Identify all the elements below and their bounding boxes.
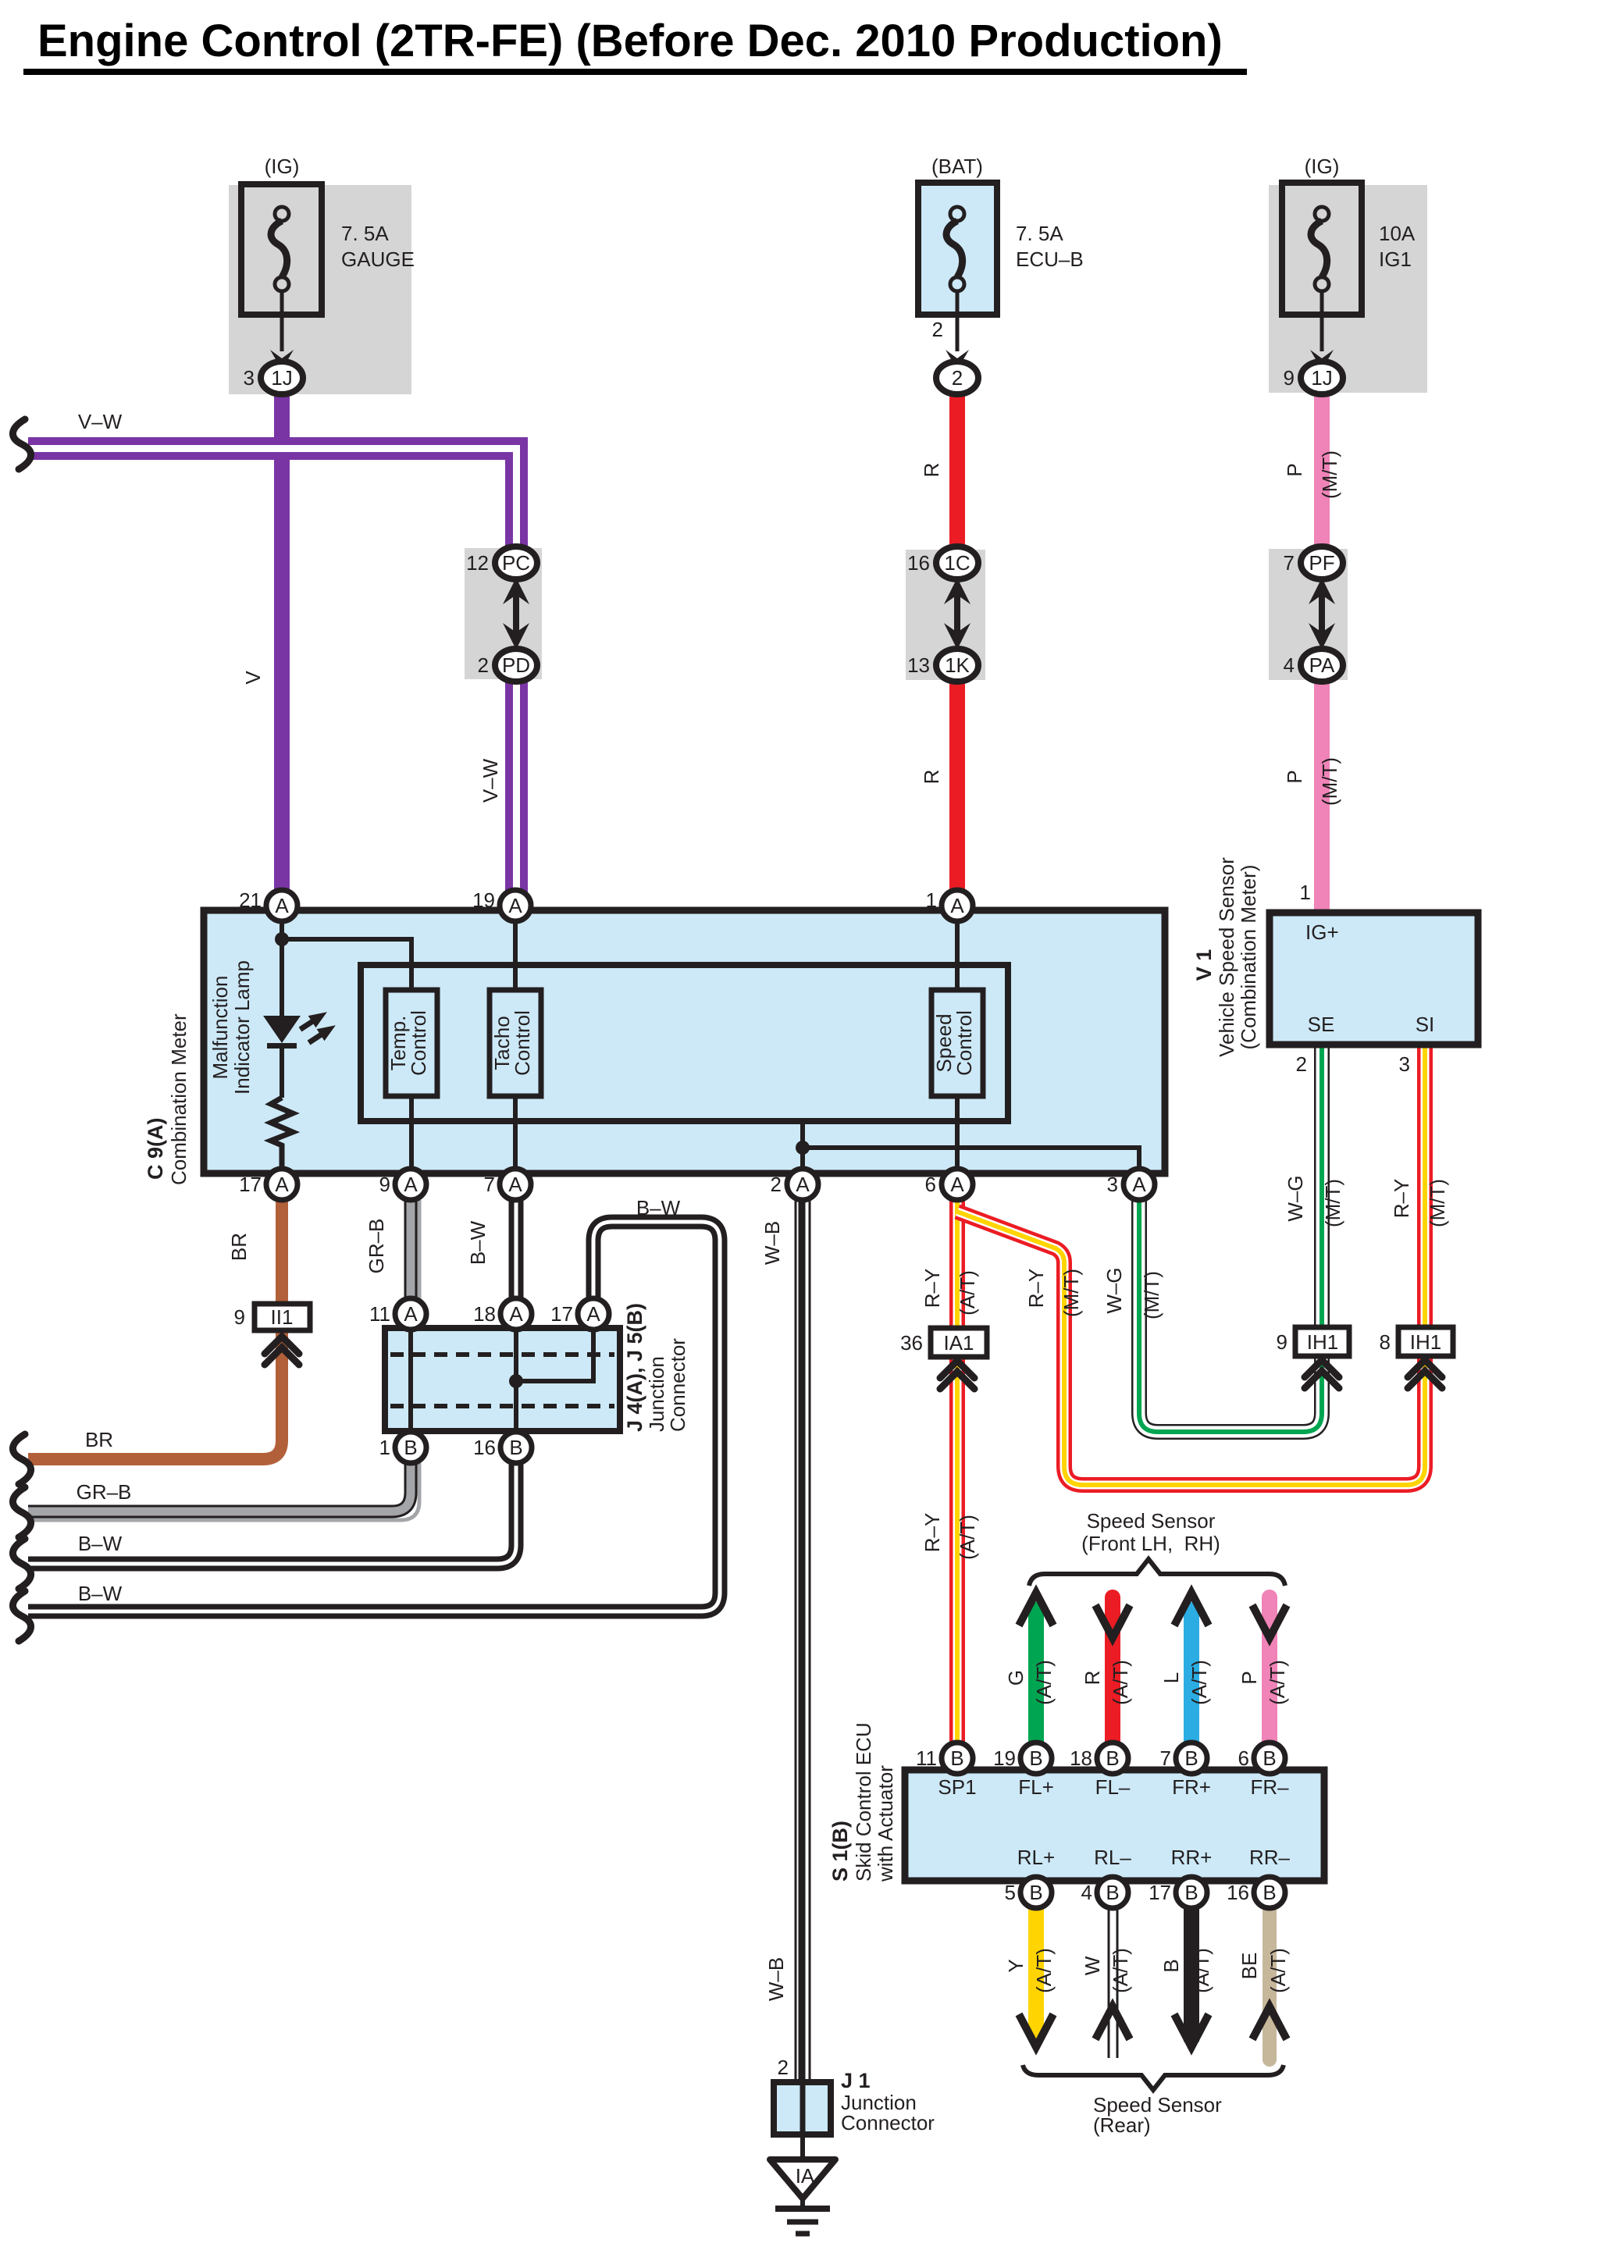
junction connector internal wires [411, 1330, 593, 1432]
brace rear speed sensors [1023, 2065, 1284, 2090]
svg-text:Skid Control ECU: Skid Control ECU [852, 1722, 875, 1882]
LED emission arrows [297, 1006, 340, 1049]
brace front speed sensors [1029, 1559, 1285, 1586]
svg-text:A: A [509, 1302, 523, 1326]
label V-W wire vertical [479, 758, 502, 803]
label C 9(A) [144, 1118, 167, 1180]
svg-text:B: B [1029, 1746, 1042, 1770]
label B-W left harness 1 [78, 1532, 123, 1555]
junction connector bus dashes [390, 1355, 614, 1406]
meter pin 9(A) [379, 1169, 426, 1200]
svg-text:GR–B: GR–B [365, 1219, 388, 1274]
label pin 2 of ECU-B fuse [932, 318, 943, 341]
svg-text:FL–: FL– [1095, 1775, 1131, 1799]
meter pin 3(A) [1107, 1169, 1155, 1200]
skid control ECU S1(B) body [905, 1770, 1324, 1881]
malfunction indicator lamp LED [263, 1016, 301, 1098]
label J4(A), J5(B) [623, 1303, 646, 1432]
junction connector pin 1(B) [379, 1432, 426, 1463]
speed control block [931, 990, 983, 1096]
svg-text:RR–: RR– [1249, 1846, 1291, 1869]
label J1 Junction Connector [841, 2069, 935, 2134]
svg-text:2: 2 [952, 366, 963, 390]
label 7.5A GAUGE [341, 222, 415, 271]
svg-text:(A/T): (A/T) [1188, 1660, 1211, 1705]
junction connector internal dot [509, 1374, 523, 1388]
label B-W loop horizontal [636, 1196, 681, 1219]
svg-text:(M/T): (M/T) [1318, 757, 1341, 806]
label W-B wire lower [764, 1957, 788, 2001]
svg-text:GAUGE: GAUGE [341, 247, 415, 271]
connector 2 (ECU-B fuse output) [936, 361, 978, 394]
svg-text:BR: BR [227, 1233, 251, 1261]
harness break GR-B [12, 1487, 30, 1537]
svg-text:2: 2 [932, 318, 943, 341]
svg-text:Junction: Junction [645, 1356, 668, 1432]
svg-text:R–Y: R–Y [921, 1513, 944, 1553]
ECU pin 17(B) [1149, 1877, 1207, 1908]
label B-W left harness 2 [78, 1582, 123, 1605]
connector PC pin 12 [466, 547, 537, 579]
svg-text:B: B [1263, 1881, 1276, 1904]
label (A/T) lower [956, 1515, 979, 1560]
svg-text:B: B [1106, 1746, 1119, 1770]
arrow into connector 1J pin 3 [270, 350, 294, 370]
wire Y (A/T) ECU pin 5 RL+ to rear speed sensor [1028, 1908, 1044, 2039]
svg-text:V–W: V–W [78, 410, 123, 433]
svg-text:(BAT): (BAT) [931, 155, 983, 178]
svg-text:3: 3 [1399, 1052, 1410, 1076]
svg-text:B: B [404, 1436, 417, 1459]
connector 1C pin 16 [907, 547, 978, 579]
svg-text:W–B: W–B [764, 1957, 788, 2001]
svg-text:GR–B: GR–B [77, 1480, 132, 1504]
connector 1J pin 3 (GAUGE fuse output) [244, 361, 303, 394]
svg-text:B: B [1029, 1881, 1042, 1904]
arrow into connector 1J pin 9 [1310, 350, 1334, 370]
arrowhead down on P wire [1252, 1605, 1287, 1638]
splice chevrons below IH1 pin 9 [1305, 1360, 1339, 1388]
junction dot at pin21 line [275, 932, 289, 946]
svg-text:W: W [1081, 1956, 1104, 1975]
svg-text:(A/T): (A/T) [1266, 1660, 1289, 1705]
resistor in MIL branch [271, 1098, 293, 1173]
svg-text:P: P [1283, 770, 1306, 783]
svg-text:(M/T): (M/T) [1140, 1271, 1163, 1319]
svg-text:9: 9 [1277, 1330, 1287, 1354]
svg-text:G: G [1004, 1670, 1027, 1686]
label G wire [1004, 1670, 1027, 1686]
svg-text:Control: Control [953, 1010, 976, 1076]
svg-text:B–W: B–W [466, 1220, 490, 1265]
label (IG) for IG1 fuse [1305, 155, 1340, 178]
meter pin 2(A) [771, 1169, 818, 1200]
wire L (A/T) front speed sensor to ECU pin 7 FR+ [1184, 1602, 1199, 1750]
harness break V-W [12, 419, 30, 469]
wire R (red) fuse ECU-B to connector 1C [949, 389, 965, 551]
svg-text:IG1: IG1 [1379, 247, 1412, 271]
meter pin 17(A) [239, 1169, 297, 1200]
svg-text:SE: SE [1308, 1013, 1335, 1036]
svg-text:A: A [508, 1173, 522, 1196]
vehicle speed sensor V1 body [1270, 913, 1478, 1045]
label V1 pin 1 [1300, 881, 1311, 904]
wire W-G (M/T) meter pin 3 to V1 pin 2 SE via connector 9 IH1 [1139, 1045, 1322, 1432]
svg-text:L: L [1159, 1672, 1183, 1683]
svg-text:R: R [920, 463, 943, 478]
label RL+ [1017, 1846, 1055, 1869]
svg-text:PD: PD [502, 653, 530, 677]
svg-text:(A/T): (A/T) [1032, 1948, 1056, 1993]
svg-text:(IG): (IG) [1305, 155, 1340, 178]
shaded block: 1C/1K inline connector [906, 550, 985, 680]
svg-text:9: 9 [234, 1305, 245, 1329]
svg-text:P: P [1238, 1671, 1261, 1684]
meter internal wire tacho control to pin7 [513, 1096, 518, 1173]
junction connector pin 11(A) [369, 1298, 426, 1330]
label FL- [1095, 1775, 1131, 1799]
shaded block: PC/PD inline connector [465, 548, 542, 679]
meter internal wire junction to temp control [282, 939, 411, 990]
svg-text:FL+: FL+ [1018, 1775, 1054, 1799]
svg-text:19: 19 [472, 888, 495, 912]
meter internal wire pin21 to MIL [280, 910, 284, 1020]
wire R-Y (A/T) meter pin 6 to skid control ECU pin 11 SP1 [949, 1200, 965, 1750]
connector PA pin 4 [1284, 649, 1343, 682]
label RR- [1249, 1846, 1291, 1869]
svg-text:16: 16 [907, 551, 930, 575]
label RL- [1094, 1846, 1131, 1869]
meter pin 7(A) [484, 1169, 531, 1200]
svg-text:4: 4 [1081, 1881, 1092, 1904]
label R wire upper [920, 463, 943, 478]
svg-text:7: 7 [484, 1173, 495, 1196]
inline arrow PF-PA [1309, 578, 1335, 650]
label (M/T) upper [1318, 450, 1341, 499]
svg-text:(A/T): (A/T) [1109, 1948, 1132, 1993]
connector II1 pin 9 [234, 1304, 310, 1330]
svg-text:10A: 10A [1379, 222, 1416, 245]
svg-text:SI: SI [1416, 1013, 1435, 1036]
meter internal wire speed control to pin6 [955, 1096, 960, 1173]
svg-text:13: 13 [907, 653, 930, 677]
junction connector pin 17(A) [550, 1298, 609, 1330]
svg-text:1J: 1J [271, 366, 292, 390]
svg-text:11: 11 [916, 1746, 937, 1770]
svg-text:IA: IA [796, 2164, 815, 2188]
wire V-W from connector PD to meter pin 19 [509, 676, 524, 898]
meter internal wire pin2 / pin3 with junction [796, 1121, 1139, 1173]
combination meter C9(A) body [204, 910, 1165, 1173]
label R wire front [1081, 1671, 1104, 1686]
arrowhead down on Y wire [1019, 2014, 1053, 2047]
svg-text:7. 5A: 7. 5A [1016, 222, 1063, 245]
svg-text:(M/T): (M/T) [1321, 1179, 1344, 1227]
connector IH1 pin 8 [1380, 1327, 1453, 1356]
label W wire [1081, 1956, 1104, 1975]
svg-text:A: A [275, 1173, 289, 1196]
label Speed Sensor (Front LH, RH) [1081, 1509, 1220, 1555]
shaded block: PF/PA inline connector [1269, 549, 1348, 680]
svg-text:(M/T): (M/T) [1318, 450, 1341, 499]
svg-text:21: 21 [239, 888, 262, 912]
wire BR (brown) meter pin 17 through II1 to left harness [28, 1200, 282, 1459]
connector 1K pin 13 [907, 649, 978, 682]
label FR+ [1172, 1775, 1211, 1799]
wire BE (A/T) ECU pin 16 RR- to rear speed sensor [1263, 1908, 1277, 2060]
svg-text:A: A [950, 894, 964, 917]
label (IG) for GAUGE fuse [265, 155, 300, 178]
label Speed Control line1 [932, 1013, 956, 1072]
label Junction [645, 1356, 668, 1432]
label V-W wire horizontal [78, 410, 123, 433]
svg-text:18: 18 [1070, 1746, 1092, 1770]
label BR left harness [85, 1428, 113, 1451]
svg-text:A: A [275, 894, 289, 917]
svg-text:A: A [586, 1302, 600, 1326]
svg-text:R–Y: R–Y [1024, 1269, 1048, 1308]
label V1 pin 2 [1296, 1052, 1307, 1076]
svg-text:(A/T): (A/T) [1109, 1660, 1132, 1705]
svg-text:1C: 1C [944, 551, 970, 575]
wire R (red) connector 1K to meter pin 1 [949, 676, 965, 894]
svg-text:with Actuator: with Actuator [874, 1765, 897, 1882]
svg-text:V: V [241, 671, 265, 685]
svg-text:V 1: V 1 [1192, 949, 1216, 981]
junction connector pin 16(B) [473, 1432, 532, 1463]
label Connector [666, 1338, 689, 1432]
svg-text:1K: 1K [945, 653, 970, 677]
meter pin 19(A) [472, 888, 531, 921]
label Y wire [1004, 1959, 1027, 1972]
svg-text:(Combination Meter): (Combination Meter) [1237, 865, 1260, 1050]
svg-text:PC: PC [502, 551, 530, 575]
svg-text:R: R [920, 770, 943, 785]
label SE [1308, 1013, 1335, 1036]
svg-text:(M/T): (M/T) [1426, 1179, 1449, 1227]
label (M/T) [1060, 1269, 1083, 1317]
label (M/T) lower [1318, 757, 1341, 806]
svg-text:1: 1 [1300, 881, 1311, 904]
harness break BR [12, 1434, 30, 1484]
arrow into connector 2 [946, 350, 969, 370]
arrowhead up on G wire [1019, 1593, 1053, 1625]
svg-text:A: A [796, 1173, 810, 1196]
svg-text:SP1: SP1 [938, 1775, 976, 1799]
ECU pin 18(B) [1070, 1743, 1128, 1774]
label P wire upper [1283, 463, 1306, 476]
tacho control block [490, 990, 541, 1096]
svg-text:(M/T): (M/T) [1060, 1269, 1083, 1317]
svg-text:B: B [1184, 1746, 1198, 1770]
svg-text:Indicator Lamp: Indicator Lamp [230, 960, 254, 1095]
meter pin 21(A) [239, 888, 297, 921]
wire V (violet) fuse GAUGE to meter pin 21 [274, 389, 290, 894]
svg-text:P: P [1283, 463, 1306, 476]
svg-text:W–G: W–G [1102, 1267, 1126, 1313]
label Skid Control ECU [852, 1722, 875, 1882]
label 10A IG1 [1379, 222, 1416, 271]
splice chevrons below II1 [265, 1337, 299, 1365]
ECU pin 4(B) [1081, 1877, 1128, 1908]
svg-text:IH1: IH1 [1410, 1330, 1441, 1354]
fuse 10A IG1 (IG) [1282, 183, 1362, 351]
svg-text:3: 3 [1107, 1173, 1118, 1196]
svg-text:(A/T): (A/T) [1190, 1948, 1213, 1993]
meter inner module box [361, 965, 1008, 1121]
svg-text:(A/T): (A/T) [1032, 1660, 1056, 1705]
svg-text:B: B [1159, 1959, 1183, 1972]
svg-text:A: A [1132, 1173, 1146, 1196]
label with Actuator [874, 1765, 897, 1882]
label GR-B wire [365, 1219, 388, 1274]
ECU pin 6(B) [1238, 1743, 1285, 1774]
junction connector pin 18(A) [473, 1298, 532, 1330]
meter pin 1(A) [926, 888, 973, 921]
svg-text:B–W: B–W [78, 1582, 123, 1605]
svg-text:7: 7 [1284, 551, 1295, 575]
svg-text:17: 17 [1149, 1881, 1171, 1904]
svg-text:(Rear): (Rear) [1093, 2113, 1151, 2137]
meter internal wire temp control to pin9 [409, 1096, 414, 1173]
wire P (pink) connector PA to V1 pin 1 IG+ [1314, 676, 1330, 913]
label FR- [1250, 1775, 1289, 1799]
arrowhead up on BE wire [1252, 2006, 1287, 2039]
wire B (A/T) ECU pin 17 RR+ to rear speed sensor [1184, 1908, 1199, 2042]
label B-W wire vertical [466, 1220, 490, 1265]
svg-text:B–W: B–W [636, 1196, 681, 1219]
ECU pin 19(B) [993, 1743, 1052, 1774]
splice chevrons below IA1 [940, 1361, 974, 1389]
wire R-Y (M/T) meter pin 6 branch to V1 pin 3 SI via connector 8 IH1 [957, 1045, 1425, 1485]
svg-text:16: 16 [473, 1436, 496, 1459]
label W-G (M/T) [1102, 1267, 1126, 1313]
svg-text:IA1: IA1 [943, 1331, 974, 1355]
temp control block [386, 990, 437, 1096]
svg-text:9: 9 [1284, 366, 1295, 390]
harness break B-W 2 [12, 1591, 30, 1641]
label SP1 [938, 1775, 976, 1799]
svg-text:A: A [404, 1302, 418, 1326]
label B wire [1159, 1959, 1183, 1972]
svg-text:BE: BE [1238, 1953, 1261, 1980]
svg-text:BR: BR [85, 1428, 113, 1451]
svg-text:2: 2 [778, 2056, 789, 2079]
label Tacho Control line1 [490, 1016, 514, 1070]
svg-text:B: B [950, 1746, 963, 1770]
meter pin 6(A) [925, 1169, 973, 1200]
svg-text:V–W: V–W [479, 758, 502, 803]
svg-text:6: 6 [1238, 1746, 1249, 1770]
svg-text:W–B: W–B [760, 1221, 784, 1265]
label (Combination Meter) [1237, 865, 1260, 1050]
fuse 7.5A GAUGE (IG) [241, 184, 322, 351]
svg-text:36: 36 [900, 1331, 923, 1355]
svg-text:7: 7 [1160, 1746, 1171, 1770]
ECU pin 5(B) [1005, 1877, 1052, 1908]
label V1 pin 3 [1399, 1052, 1410, 1076]
harness break B-W 1 [12, 1539, 30, 1589]
svg-text:IG+: IG+ [1305, 920, 1339, 944]
meter internal wire pin1 to speed control [955, 910, 960, 990]
wire R (A/T) front speed sensor to ECU pin 18 FL- [1105, 1597, 1120, 1750]
label Vehicle Speed Sensor [1215, 857, 1238, 1057]
svg-text:A: A [950, 1173, 964, 1196]
wire J1 to ground IA [800, 2134, 805, 2163]
label IG+ [1305, 920, 1339, 944]
label Combination Meter [167, 1013, 191, 1185]
svg-text:Combination Meter: Combination Meter [167, 1013, 191, 1185]
svg-text:A: A [404, 1173, 418, 1196]
svg-text:5: 5 [1005, 1881, 1016, 1904]
svg-text:B: B [1106, 1881, 1119, 1904]
svg-text:S 1(B): S 1(B) [828, 1821, 852, 1882]
label SI [1416, 1013, 1435, 1036]
label R-Y (A/T) upper [921, 1269, 944, 1308]
label GR-B left harness [77, 1480, 132, 1504]
svg-text:(A/T): (A/T) [956, 1515, 979, 1560]
wire B-W junction connector pin 17 loop to left harness [28, 1222, 720, 1611]
connector IH1 pin 9 [1277, 1327, 1349, 1356]
svg-text:IH1: IH1 [1307, 1330, 1338, 1354]
svg-text:J 4(A), J 5(B): J 4(A), J 5(B) [623, 1303, 646, 1432]
svg-text:12: 12 [466, 551, 489, 575]
label BR wire [227, 1233, 251, 1261]
svg-text:B: B [1184, 1881, 1198, 1904]
svg-text:1J: 1J [1311, 366, 1332, 390]
label (M/T) [1140, 1271, 1163, 1319]
svg-text:Control: Control [407, 1010, 430, 1076]
svg-text:RR+: RR+ [1171, 1846, 1213, 1869]
svg-text:(A/T): (A/T) [1266, 1948, 1290, 1993]
svg-text:B: B [509, 1436, 522, 1459]
svg-text:Vehicle Speed Sensor: Vehicle Speed Sensor [1215, 857, 1238, 1057]
connector 1J pin 9 (IG1 fuse output) [1284, 361, 1343, 394]
svg-text:2: 2 [1296, 1052, 1307, 1076]
junction connector J4(A), J5(B) body [385, 1328, 620, 1431]
inline arrow 1C-1K [944, 578, 970, 650]
svg-text:R: R [1081, 1671, 1104, 1686]
label L wire [1159, 1672, 1183, 1683]
svg-text:8: 8 [1380, 1330, 1391, 1354]
inline arrow PC-PD [503, 578, 529, 650]
svg-text:R–Y: R–Y [921, 1269, 944, 1308]
ECU pin 11(B) [916, 1743, 973, 1774]
svg-text:PA: PA [1309, 653, 1335, 677]
svg-text:(IG): (IG) [265, 155, 300, 178]
svg-text:A: A [508, 894, 522, 917]
title: Engine Control (2TR-FE) (Before Dec. 2010 Production) [23, 16, 1247, 75]
label V 1 [1192, 949, 1216, 981]
svg-text:FR+: FR+ [1172, 1775, 1211, 1799]
meter internal wire pin19 to tacho control [513, 910, 518, 990]
shaded block: IG1 fuse area [1269, 185, 1427, 393]
svg-text:R–Y: R–Y [1390, 1179, 1413, 1219]
splice chevrons below IH1 pin 8 [1408, 1360, 1442, 1388]
label Malfunction Indicator Lamp [208, 976, 232, 1080]
label R-Y (M/T) [1024, 1269, 1048, 1308]
wire GR-B junction connector pin 1 to left harness [28, 1463, 419, 1520]
wire W-B meter pin 2 to junction connector J1 [796, 1200, 810, 2082]
label pin 2 of J1 [778, 2056, 789, 2079]
svg-text:(A/T): (A/T) [956, 1270, 979, 1316]
svg-text:B: B [1263, 1746, 1276, 1770]
svg-text:3: 3 [244, 366, 255, 390]
label Speed Sensor (Rear) [1093, 2093, 1222, 2137]
svg-text:4: 4 [1284, 653, 1295, 677]
connector PF pin 7 [1284, 547, 1343, 579]
svg-text:II1: II1 [271, 1305, 294, 1329]
